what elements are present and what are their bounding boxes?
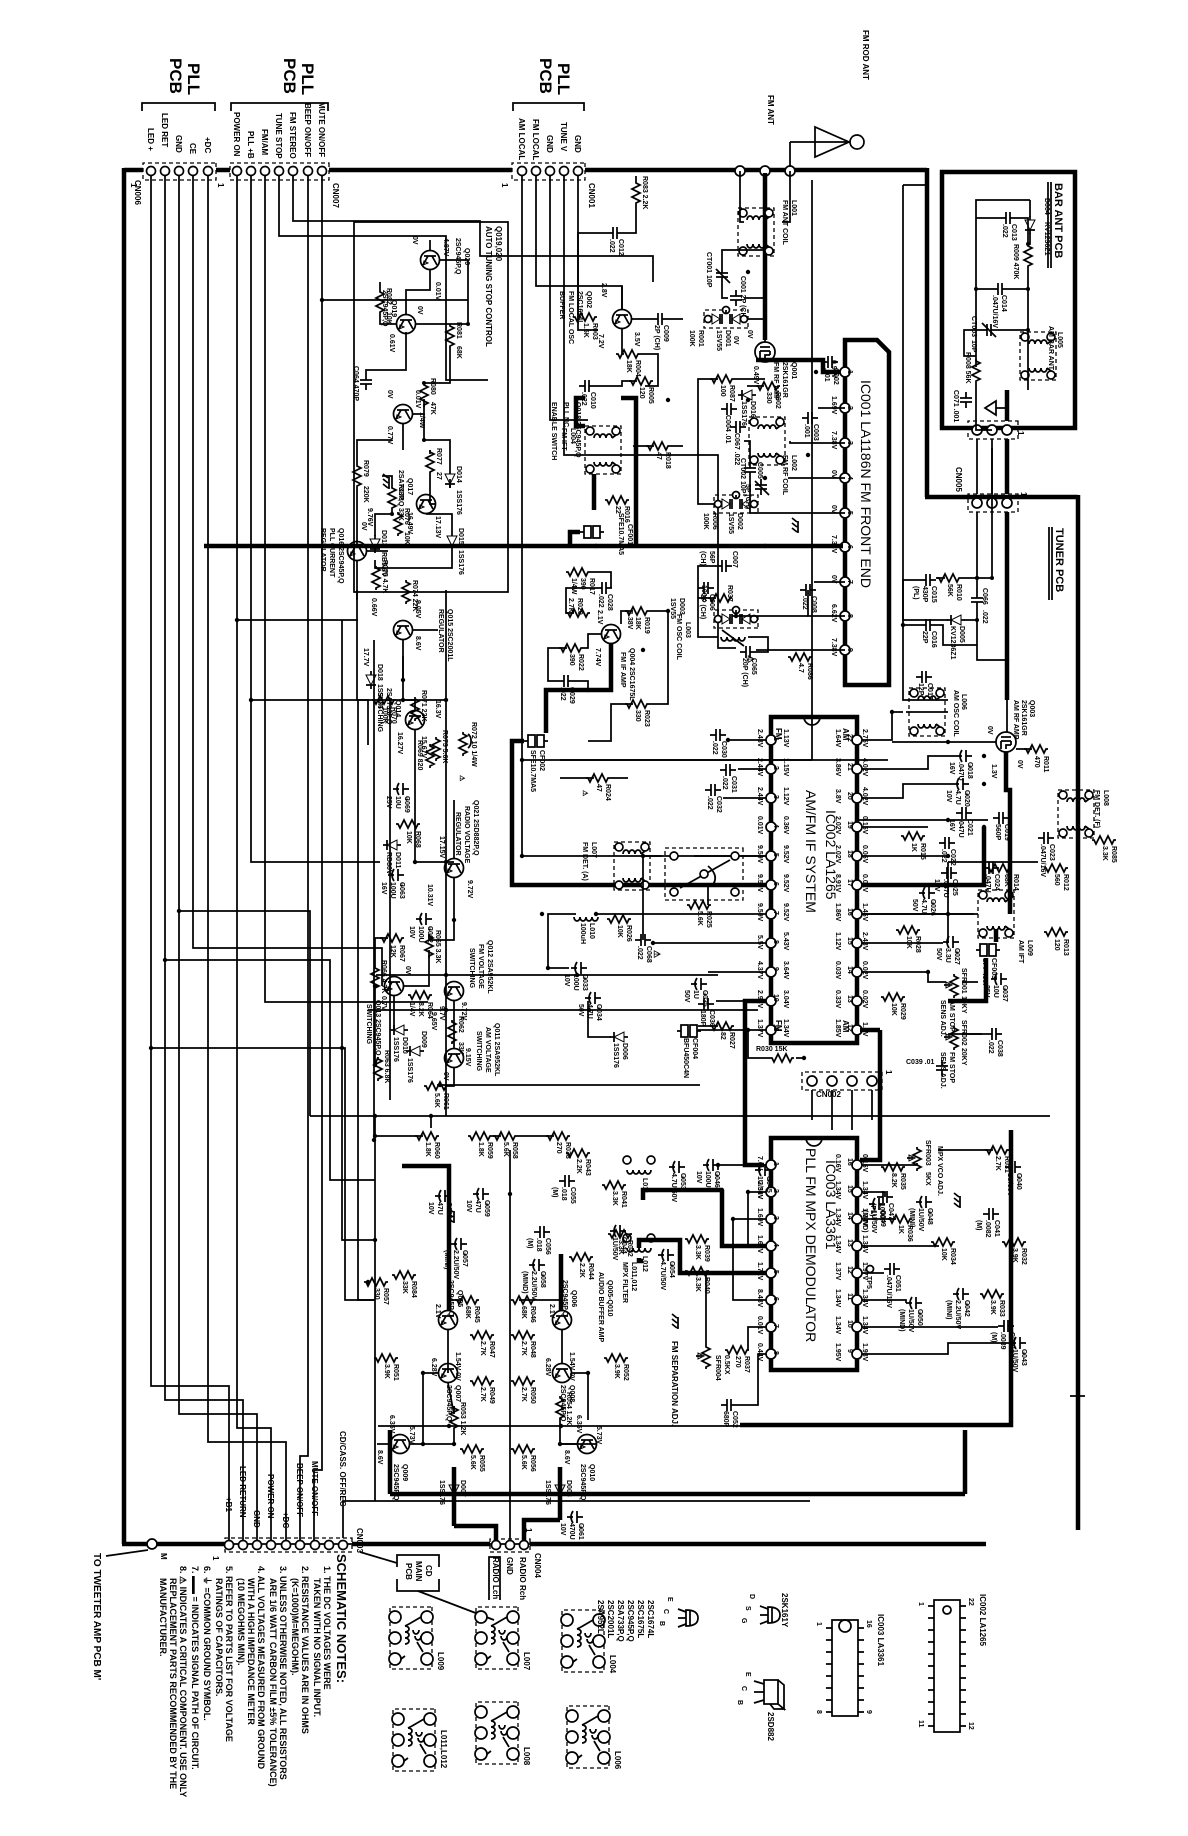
- svg-text:C054: C054: [668, 1261, 675, 1278]
- svg-text:R005: R005: [647, 387, 654, 404]
- resistor R023 330: [625, 700, 650, 727]
- resistor R076 10K: [394, 508, 410, 545]
- svg-text:FM STEREO: FM STEREO: [288, 112, 297, 159]
- svg-text:Q019,020: Q019,020: [494, 226, 503, 262]
- svg-text:7. ▬▬ = INDICATES SIGNAL PATH: 7. ▬▬ = INDICATES SIGNAL PATH OF CIRCUIT…: [190, 1566, 200, 1770]
- svg-text:1.95V: 1.95V: [834, 1343, 841, 1362]
- svg-text:0.33V: 0.33V: [834, 990, 841, 1009]
- svg-text:R044: R044: [587, 1263, 594, 1280]
- svg-text:FM IF AMP: FM IF AMP: [619, 652, 626, 688]
- svg-text:C002: C002: [832, 368, 839, 385]
- capacitor C029 .022: [558, 675, 575, 704]
- resistor R045 68K: [455, 1296, 480, 1323]
- svg-text:0.01V: 0.01V: [756, 816, 763, 835]
- svg-text:3.86V: 3.86V: [834, 758, 841, 777]
- svg-text:SENS ADJ.: SENS ADJ.: [939, 1000, 946, 1037]
- resistor R048 2.7K: [511, 1331, 536, 1358]
- svg-text:REPLACEMENT PARTS RECOMMENDED: REPLACEMENT PARTS RECOMMENDED BY THE: [168, 1578, 178, 1789]
- resistor R011 470: [1024, 745, 1049, 772]
- svg-text:3.3K: 3.3K: [617, 1240, 624, 1255]
- IC002 top pins 22-12: [852, 735, 862, 745]
- transistor package 2SK161Y: [740, 1593, 789, 1628]
- svg-text:0V: 0V: [746, 330, 753, 339]
- svg-text:FM IFT: FM IFT: [560, 428, 567, 451]
- capacitor C010 .022: [579, 380, 596, 409]
- svg-text:1U: 1U: [692, 990, 699, 999]
- svg-text:10KY: 10KY: [960, 996, 967, 1014]
- svg-text:0.16V: 0.16V: [861, 1154, 868, 1173]
- svg-text:D006: D006: [621, 1043, 628, 1060]
- svg-text:C053: C053: [679, 1173, 686, 1190]
- svg-text:C010: C010: [589, 392, 596, 409]
- transistor Q013 switching: [365, 966, 411, 1056]
- svg-text:10V: 10V: [945, 790, 952, 803]
- svg-text:FM STOP: FM STOP: [948, 1052, 955, 1083]
- varactor D002 1SV55: [702, 492, 758, 535]
- svg-text:6: 6: [772, 1297, 779, 1301]
- svg-text:L010: L010: [588, 923, 595, 939]
- svg-text:8.91V: 8.91V: [834, 874, 841, 893]
- svg-text:10K: 10K: [405, 831, 412, 844]
- svg-text:C058: C058: [539, 1271, 546, 1288]
- svg-text:AM LOCAL: AM LOCAL: [517, 118, 526, 160]
- svg-text:B: B: [736, 1700, 743, 1705]
- svg-text:9.59V: 9.59V: [756, 874, 763, 893]
- svg-text:3: 3: [772, 795, 779, 799]
- svg-text:12K: 12K: [389, 945, 396, 958]
- svg-text:SFR001: SFR001: [960, 968, 967, 994]
- svg-text:2.7K: 2.7K: [479, 1341, 486, 1356]
- wire thick q004 to cf002: [546, 644, 611, 733]
- coil L007 FM DET (A): [581, 842, 650, 890]
- svg-text:E: E: [744, 1672, 751, 1677]
- svg-text:R054 1.2K: R054 1.2K: [565, 1392, 572, 1425]
- local osc wires: [635, 176, 637, 181]
- svg-text:Q017: Q017: [406, 478, 413, 495]
- svg-text:PCB: PCB: [166, 58, 185, 94]
- coil L008 FM DET (F): [1058, 790, 1109, 838]
- svg-text:.022: .022: [987, 1040, 994, 1054]
- wire thick cf002 to IC002: [512, 741, 769, 885]
- svg-text:2SK161GR: 2SK161GR: [781, 362, 788, 398]
- svg-text:C043: C043: [1020, 1349, 1027, 1366]
- svg-text:3.8V: 3.8V: [834, 789, 841, 804]
- svg-text:68K: 68K: [455, 346, 462, 359]
- svg-text:2P (CH): 2P (CH): [653, 325, 660, 350]
- svg-text:C068: C068: [645, 946, 652, 963]
- svg-text:2SC1675L: 2SC1675L: [636, 1600, 645, 1638]
- svg-text:C003: C003: [812, 424, 819, 441]
- svg-text:R037: R037: [743, 1356, 750, 1373]
- wire TUNE STOP bus: [279, 176, 488, 380]
- svg-text:(PL): (PL): [912, 586, 919, 600]
- svg-text:C067 .022: C067 .022: [733, 433, 740, 465]
- svg-text:RADIO Lch: RADIO Lch: [491, 1557, 500, 1599]
- svg-text:560: 560: [1053, 874, 1060, 886]
- svg-text:C034: C034: [595, 1004, 602, 1021]
- svg-text:8.2K: 8.2K: [890, 1173, 897, 1188]
- svg-text:1.34V: 1.34V: [834, 1289, 841, 1308]
- svg-text:.018: .018: [560, 1187, 567, 1201]
- svg-text:Q021 2SD882P,Q: Q021 2SD882P,Q: [472, 800, 479, 856]
- wire LED RET bus: [165, 176, 243, 1540]
- capacitor C039 .01: [906, 1059, 948, 1076]
- svg-text:CT002 10P: CT002 10P: [739, 458, 746, 494]
- wire antenna return b: [903, 184, 927, 186]
- svg-text:330: 330: [765, 392, 772, 404]
- wire CE bus: [193, 176, 382, 986]
- svg-text:R055: R055: [478, 1455, 485, 1472]
- svg-text:0V: 0V: [386, 390, 393, 399]
- svg-text:1SV55: 1SV55: [669, 598, 676, 619]
- svg-text:(M): (M): [975, 1220, 982, 1231]
- svg-text:0.02V: 0.02V: [861, 961, 868, 980]
- capacitor C023 .047U 16V: [1038, 832, 1055, 877]
- svg-text:CN003: CN003: [355, 1528, 364, 1553]
- resistor R034 10K: [931, 1238, 956, 1265]
- svg-text:R001: R001: [697, 330, 704, 347]
- transistor Q007: [430, 1352, 461, 1422]
- diode D018 1SS176: [362, 648, 383, 709]
- svg-text:REGULATOR: REGULATOR: [454, 812, 461, 856]
- svg-text:0.01V: 0.01V: [434, 282, 441, 301]
- svg-text:4.7U: 4.7U: [920, 899, 927, 914]
- svg-text:50V: 50V: [683, 990, 690, 1003]
- svg-text:R045: R045: [473, 1306, 480, 1323]
- svg-text:Q015 2SC2001L: Q015 2SC2001L: [446, 609, 453, 662]
- svg-text:5. REFER TO PARTS LIST FOR VO: 5. REFER TO PARTS LIST FOR VOLTAGE: [224, 1566, 234, 1742]
- resistor R084 33K: [392, 1271, 417, 1298]
- svg-text:68K: 68K: [464, 1306, 471, 1319]
- IC002 top pin stubs: [862, 712, 903, 740]
- svg-text:2.43V: 2.43V: [756, 729, 763, 748]
- svg-text:1.3V: 1.3V: [990, 764, 997, 779]
- svg-text:Q012 2SA952KL: Q012 2SA952KL: [486, 940, 493, 994]
- svg-text:R015: R015: [919, 843, 926, 860]
- svg-text:2.7K: 2.7K: [520, 1387, 527, 1402]
- svg-text:C041: C041: [993, 1220, 1000, 1237]
- svg-text:22: 22: [846, 734, 853, 742]
- svg-text:13: 13: [846, 995, 853, 1003]
- svg-text:2.2U/50V: 2.2U/50V: [452, 1250, 459, 1280]
- coil diagram L004: [561, 1610, 617, 1674]
- svg-text:1.34V: 1.34V: [782, 1019, 789, 1038]
- svg-text:C038: C038: [996, 1040, 1003, 1057]
- svg-text:C020: C020: [963, 790, 970, 807]
- svg-text:M: M: [159, 1553, 168, 1560]
- wire gnd to CN004: [509, 1150, 511, 1539]
- wire thick pin4 to L011: [722, 1190, 766, 1246]
- text L011,012 MPX FILTER: [621, 1262, 637, 1303]
- svg-text:GND: GND: [174, 135, 183, 153]
- wire thick L011 path: [643, 1190, 722, 1200]
- wire LED+ bus: [151, 176, 229, 1540]
- coil L006 AM OSC COIL: [909, 688, 967, 737]
- svg-text:3.9K: 3.9K: [383, 1364, 390, 1379]
- svg-text:R011: R011: [1042, 756, 1049, 772]
- svg-text:R026: R026: [625, 925, 632, 942]
- diode D015 1SS176: [447, 528, 464, 575]
- svg-text:18K: 18K: [634, 617, 641, 630]
- svg-text:C018: C018: [966, 762, 973, 779]
- resistor R058 5.6K: [493, 1132, 518, 1159]
- wire FM STEREO bus: [293, 176, 653, 282]
- svg-text:4: 4: [846, 476, 853, 480]
- svg-text:2.7K: 2.7K: [479, 1387, 486, 1402]
- resistor R022 390: [559, 644, 584, 671]
- svg-text:Q009: Q009: [401, 1464, 408, 1481]
- svg-text:Q014: Q014: [394, 700, 401, 717]
- wire Q020 collector: [416, 260, 468, 324]
- svg-text:Q010: Q010: [588, 1464, 595, 1481]
- diode D009 1SS176: [406, 1031, 427, 1083]
- svg-text:SFR003: SFR003: [924, 1140, 931, 1166]
- svg-text:1: 1: [500, 183, 509, 188]
- wire frame step: [925, 495, 1078, 500]
- capacitor C069 10U 25V: [385, 783, 410, 813]
- capacitor C017 12P: [916, 671, 933, 700]
- wire antenna return a: [903, 185, 948, 700]
- AM wires thin: [1006, 700, 1008, 732]
- svg-text:SCHEMATIC NOTES:: SCHEMATIC NOTES:: [334, 1554, 349, 1683]
- svg-text:C027: C027: [953, 948, 960, 965]
- svg-text:C023: C023: [1048, 844, 1055, 861]
- svg-text:2.02V: 2.02V: [834, 816, 841, 835]
- svg-text:1: 1: [884, 1070, 893, 1075]
- svg-text:9.52V: 9.52V: [782, 903, 789, 922]
- svg-text:2SA733P,Q: 2SA733P,Q: [385, 688, 392, 725]
- svg-text:R051: R051: [392, 1364, 399, 1381]
- svg-text:1SS176: 1SS176: [392, 1037, 399, 1062]
- resistor R016 22: [605, 496, 630, 523]
- svg-text:C015: C015: [930, 586, 937, 603]
- svg-text:SWITCHING: SWITCHING: [475, 1031, 482, 1072]
- svg-text:C057: C057: [461, 1250, 468, 1267]
- resistor R024 47: [581, 774, 611, 801]
- coil diagram L008: [475, 1702, 531, 1766]
- svg-text:R016: R016: [623, 506, 630, 523]
- svg-text:FM VOLTAGE: FM VOLTAGE: [477, 944, 484, 989]
- svg-text:R057: R057: [382, 1288, 389, 1305]
- svg-text:C022: C022: [949, 849, 956, 866]
- tick on top border: [1070, 1395, 1085, 1397]
- diode D004 KV1236Z1: [1025, 198, 1050, 256]
- svg-text:R043: R043: [584, 1159, 591, 1176]
- svg-text:19: 19: [846, 821, 853, 829]
- svg-text:CD/CASS. OFF/REC: CD/CASS. OFF/REC: [338, 1431, 347, 1507]
- svg-text:.022: .022: [721, 776, 728, 790]
- svg-text:KV1236Z1: KV1236Z1: [949, 626, 956, 660]
- svg-text:1.85V: 1.85V: [834, 1019, 841, 1038]
- svg-text:RADIO VOLTAGE: RADIO VOLTAGE: [463, 806, 470, 864]
- bar ant wires: [976, 200, 1030, 367]
- svg-text:(MINI): (MINI): [945, 1300, 952, 1319]
- svg-text:FM LOCAL: FM LOCAL: [531, 119, 540, 160]
- svg-text:(K=1000)M=MEGOHM).: (K=1000)M=MEGOHM).: [290, 1578, 300, 1676]
- svg-text:C: C: [740, 1686, 747, 1691]
- svg-text:270: 270: [734, 1356, 741, 1368]
- wire thick pin5 to L012: [639, 1240, 766, 1273]
- svg-text:1.37V: 1.37V: [756, 1019, 763, 1038]
- pot SFR002 FM STOP SENS ADJ: [939, 1020, 967, 1089]
- svg-text:10: 10: [846, 1320, 853, 1328]
- svg-text:C048: C048: [926, 1208, 933, 1225]
- svg-text:1: 1: [211, 1556, 220, 1561]
- svg-text:PLL +B: PLL +B: [246, 131, 255, 159]
- capacitor C060 47U 10V: [427, 1190, 452, 1219]
- capacitor C014 .047U/16V: [991, 283, 1008, 328]
- resistor R052 3.9K: [604, 1354, 629, 1381]
- resistor R037fm 100K: [700, 585, 733, 602]
- resistor R047 2.7K: [470, 1331, 495, 1358]
- svg-text:1SS176: 1SS176: [612, 1043, 619, 1068]
- svg-text:R032: R032: [1020, 1248, 1027, 1265]
- resistor R039 3.3K: [685, 1235, 710, 1262]
- svg-text:1.54V 0V: 1.54V 0V: [454, 1352, 461, 1381]
- capacitor C071 .001: [952, 390, 972, 422]
- resistor R073 5.6K: [432, 700, 448, 763]
- svg-text:2.44V: 2.44V: [756, 758, 763, 777]
- svg-text:4.7U: 4.7U: [954, 790, 961, 805]
- capacitor C025 .047U 16V: [933, 867, 958, 898]
- svg-text:1.8K: 1.8K: [477, 1142, 484, 1157]
- svg-text:2.7K: 2.7K: [994, 1156, 1001, 1171]
- trimmer CT002 10P: [739, 458, 769, 495]
- svg-text:.001: .001: [803, 424, 810, 438]
- resistor R017 390 1/4W: [566, 568, 595, 595]
- svg-text:1.69V: 1.69V: [830, 396, 837, 415]
- svg-text:6. ⏚ =COMMON GROUND SYMBOL.: 6. ⏚ =COMMON GROUND SYMBOL.: [202, 1566, 212, 1721]
- capacitor C021 .047U 16V: [948, 807, 973, 838]
- capacitor C033 100U 10V: [563, 962, 588, 991]
- svg-text:1: 1: [772, 1162, 779, 1166]
- svg-text:R063 6.8K: R063 6.8K: [383, 1050, 390, 1083]
- capacitor C035 1U 50V: [683, 978, 708, 1007]
- svg-text:1.34V: 1.34V: [834, 1181, 841, 1200]
- svg-text:4.37V: 4.37V: [756, 961, 763, 980]
- svg-text:1SV55: 1SV55: [727, 513, 734, 534]
- svg-text:.022: .022: [801, 596, 808, 610]
- svg-text:L007: L007: [522, 1652, 531, 1671]
- ic003 area wires: [718, 1165, 766, 1170]
- svg-text:100: 100: [719, 385, 726, 397]
- resistor R040 3.3K: [685, 1267, 710, 1294]
- svg-text:5.73V: 5.73V: [408, 1426, 415, 1445]
- wire frame top segment A: [925, 168, 930, 497]
- svg-text:R053 1.2K: R053 1.2K: [459, 1402, 466, 1435]
- svg-text:7.38V: 7.38V: [830, 431, 837, 450]
- wire thick IC002 to IC003: [860, 1030, 880, 1160]
- svg-text:120: 120: [1053, 939, 1060, 951]
- capacitor C008 .022: [800, 584, 817, 613]
- svg-text:D011: D011: [394, 852, 401, 868]
- svg-text:5.73V: 5.73V: [595, 1426, 602, 1445]
- resistor R078 33K: [388, 484, 404, 521]
- svg-text:13: 13: [846, 1239, 853, 1247]
- svg-text:R060: R060: [433, 1142, 440, 1159]
- transistor package 2SD882: [736, 1672, 784, 1741]
- wire thick L012 to C054: [639, 1258, 643, 1261]
- svg-text:R048: R048: [529, 1341, 536, 1358]
- resistor R054 1.2K: [556, 1392, 572, 1425]
- svg-text:R037: R037: [726, 585, 733, 602]
- wire long mid a: [376, 974, 718, 976]
- svg-text:1: 1: [815, 1622, 822, 1626]
- wire thick L005 to CN005: [1005, 390, 1010, 421]
- svg-text:1SS176: 1SS176: [740, 401, 747, 426]
- svg-text:2.43V: 2.43V: [861, 932, 868, 951]
- svg-text:R027: R027: [728, 1032, 735, 1049]
- IC IC002 LA1265: [771, 717, 857, 1043]
- svg-text:R059: R059: [486, 1142, 493, 1159]
- wire FM/AM bus: [265, 176, 428, 1002]
- svg-text:1U/50V: 1U/50V: [1011, 1349, 1018, 1373]
- diode D016 1SS176: [738, 390, 756, 426]
- svg-text:Q016 2SC945P,Q: Q016 2SC945P,Q: [337, 528, 344, 584]
- svg-text:9.05V: 9.05V: [414, 600, 421, 619]
- svg-text:MUTE ON/OFF: MUTE ON/OFF: [317, 102, 326, 157]
- svg-text:GND: GND: [505, 1557, 514, 1575]
- transistor Q019: [381, 290, 423, 353]
- svg-text:7: 7: [772, 1324, 779, 1328]
- capacitor C012 .022: [607, 227, 624, 256]
- capacitor C052 680P: [721, 1399, 738, 1428]
- extra junction dots: [366, 270, 1009, 1446]
- svg-text:2SC2001L: 2SC2001L: [606, 1600, 615, 1638]
- svg-text:R085: R085: [1110, 846, 1117, 863]
- resistor R060 1.8K: [415, 1132, 440, 1159]
- wire thick output rail: [390, 1492, 965, 1497]
- svg-text:L006: L006: [960, 694, 967, 710]
- transistor Q021 radio voltage regulator: [426, 800, 479, 920]
- svg-text:1SS176: 1SS176: [455, 490, 462, 515]
- svg-text:56P: 56P: [708, 551, 715, 564]
- svg-text:5KX: 5KX: [924, 1172, 931, 1186]
- svg-text:20: 20: [846, 792, 853, 800]
- transistor Q006: [548, 1280, 577, 1330]
- svg-text:2SC1674L: 2SC1674L: [646, 1600, 655, 1638]
- resistor R069 820: [416, 740, 434, 770]
- svg-text:1: 1: [772, 737, 779, 741]
- svg-text:R041: R041: [620, 1191, 627, 1208]
- svg-text:R023: R023: [643, 710, 650, 727]
- svg-text:1/4W: 1/4W: [570, 578, 577, 595]
- resistor R061 5.6K: [424, 1082, 449, 1110]
- capacitor C040 1U/50V: [1005, 1161, 1022, 1197]
- svg-text:(M): (M): [526, 1238, 533, 1249]
- svg-text:12: 12: [846, 1266, 853, 1274]
- svg-text:R083 2.2K: R083 2.2K: [641, 176, 648, 209]
- svg-text:MAIN: MAIN: [414, 1561, 423, 1582]
- svg-text:C055: C055: [569, 1187, 576, 1204]
- svg-text:C033: C033: [581, 974, 588, 991]
- svg-text:0.01V: 0.01V: [756, 1316, 763, 1335]
- svg-text:D009: D009: [420, 1031, 427, 1048]
- IC002 bottom pins 1-11: [1187, 0, 1188, 1]
- svg-text:FM RF COIL: FM RF COIL: [781, 455, 788, 496]
- capacitor C050 1U/50V (MIND): [898, 1297, 923, 1333]
- svg-text:1K: 1K: [910, 843, 917, 852]
- svg-text:L006: L006: [613, 1751, 622, 1770]
- fet Q003 AM RF AMP: [986, 700, 1035, 779]
- wire +DC bus: [208, 176, 286, 1540]
- svg-text:0.16V: 0.16V: [834, 1154, 841, 1173]
- wire thick IC002 pin10 to IC003 pin1: [745, 1001, 766, 1165]
- pot SFR001 AM STOP SENS ADJ: [939, 968, 967, 1037]
- svg-text:E: E: [666, 1597, 673, 1602]
- svg-text:L011,012: L011,012: [630, 1262, 637, 1291]
- svg-text:⚠: ⚠: [746, 655, 756, 663]
